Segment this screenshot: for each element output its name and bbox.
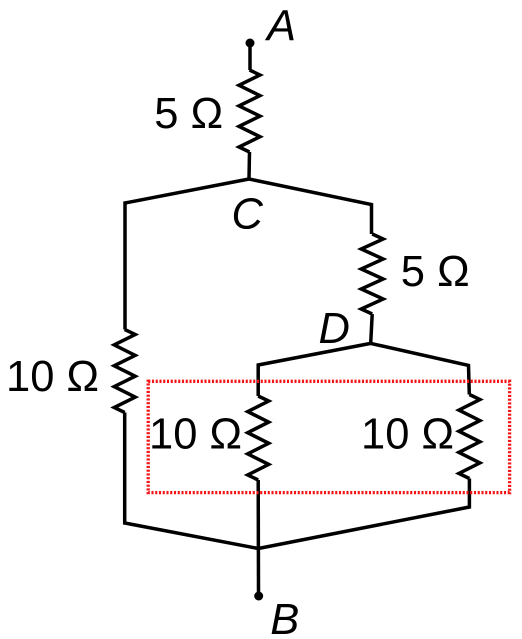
svg-text:5 Ω: 5 Ω xyxy=(154,90,223,138)
svg-text:D: D xyxy=(319,305,350,353)
svg-text:10 Ω: 10 Ω xyxy=(361,411,454,459)
svg-text:10 Ω: 10 Ω xyxy=(149,410,242,458)
svg-text:A: A xyxy=(264,2,296,50)
svg-text:10 Ω: 10 Ω xyxy=(6,353,99,401)
svg-text:B: B xyxy=(270,596,299,639)
svg-text:C: C xyxy=(232,191,264,239)
svg-text:5 Ω: 5 Ω xyxy=(401,248,470,296)
